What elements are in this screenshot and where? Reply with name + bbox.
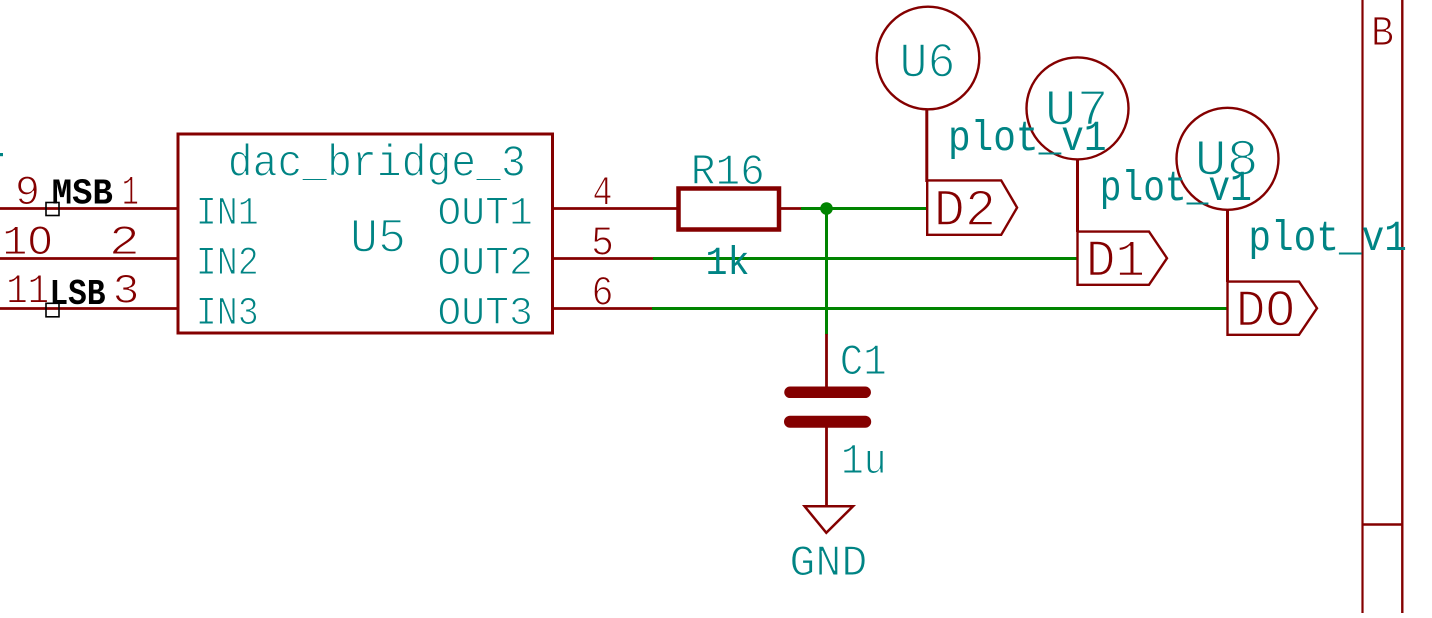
svg-text:U5: U5 <box>350 211 406 266</box>
probe U6 value plot_v1 <box>948 114 1107 163</box>
reference U8 <box>1195 133 1259 190</box>
pin number 10 (off-sheet device) <box>2 219 52 267</box>
unconnected-end square marker row1 <box>46 203 59 216</box>
svg-text:6: 6 <box>592 269 614 317</box>
svg-text:LSB: LSB <box>50 274 106 315</box>
svg-text:dac_bridge_3: dac_bridge_3 <box>228 139 526 189</box>
wire IN2 row <box>0 257 178 260</box>
sheet frame outer vertical line <box>1401 0 1403 613</box>
wire OUT1 to R16 <box>553 207 679 210</box>
wire IN3 row <box>0 307 178 310</box>
sheet frame row label B <box>1371 10 1394 58</box>
sheet frame inner vertical line <box>1361 0 1363 613</box>
svg-text:D1: D1 <box>1086 233 1146 292</box>
wire OUT2 stub <box>553 257 654 260</box>
wire green vertical junction to C1 <box>825 209 828 335</box>
value 1k <box>706 242 750 287</box>
svg-text:C1: C1 <box>840 339 887 388</box>
svg-text:IN1: IN1 <box>196 192 259 237</box>
svg-text:1O: 1O <box>2 219 52 267</box>
reference R16 <box>691 148 765 198</box>
svg-text:5: 5 <box>591 220 614 268</box>
probe U7 stem <box>1076 159 1079 232</box>
svg-text:MSB: MSB <box>52 174 113 215</box>
svg-text:1u: 1u <box>841 438 887 486</box>
pin number 1 of U5 <box>122 169 139 217</box>
svg-text:D2: D2 <box>934 182 997 241</box>
wire green R16 to junction and D2 <box>801 207 928 210</box>
probe U7 circle <box>1027 57 1129 159</box>
pin name OUT3 <box>437 292 533 337</box>
probe U7 value plot_v1 <box>1100 164 1252 213</box>
pin name OUT2 <box>437 242 533 287</box>
resistor R16 <box>679 189 780 230</box>
pin name IN1 <box>196 192 259 237</box>
hierarchical label D1 <box>1078 232 1168 292</box>
pin name IN2 <box>196 242 259 287</box>
value dac_bridge_3 <box>228 139 526 189</box>
svg-text:U6: U6 <box>900 36 956 92</box>
svg-text:R16: R16 <box>691 148 765 198</box>
hierarchical label D0 <box>1228 282 1318 342</box>
ground <box>805 506 853 533</box>
component U5 dac_bridge_3 body <box>178 134 553 333</box>
sheet frame row divider tick <box>1363 523 1403 525</box>
svg-text:11: 11 <box>6 268 49 316</box>
probe U8 circle <box>1177 108 1279 210</box>
svg-text:OUT3: OUT3 <box>437 292 533 337</box>
svg-text:3: 3 <box>113 268 140 316</box>
reference C1 <box>840 339 887 388</box>
svg-text:B: B <box>1371 10 1394 58</box>
probe U6 circle <box>877 7 980 110</box>
svg-text:2: 2 <box>109 219 140 267</box>
svg-text:GND: GND <box>789 540 867 589</box>
wire OUT3 stub <box>553 307 653 310</box>
reference U5 <box>350 211 406 266</box>
svg-text:plot_v1: plot_v1 <box>1100 164 1252 213</box>
label MSB <box>52 174 113 215</box>
pin name IN3 <box>196 292 259 337</box>
wire green OUT3 to D0 <box>652 307 1228 310</box>
probe U6 stem <box>925 109 928 182</box>
svg-text:plot_v1: plot_v1 <box>1248 214 1407 263</box>
reference U6 <box>900 36 956 92</box>
probe U8 stem <box>1226 209 1229 282</box>
svg-text:1k: 1k <box>706 242 750 287</box>
pin name OUT1 <box>437 192 533 237</box>
svg-text:OUT2: OUT2 <box>437 242 533 287</box>
pin number 3 of U5 <box>113 268 140 316</box>
probe U8 value plot_v1 <box>1248 214 1407 263</box>
hierarchical label D2 <box>927 180 1017 241</box>
svg-text:plot_v1: plot_v1 <box>948 114 1107 163</box>
clipped teal text fragment at left edge <box>0 153 3 156</box>
wire IN1 row <box>0 207 178 210</box>
svg-text:9: 9 <box>15 169 40 217</box>
pin number 6 of U5 <box>592 269 614 317</box>
wire green OUT2 to D1 <box>653 257 1078 260</box>
pin number 9 (off-sheet device) <box>15 169 40 217</box>
svg-text:1: 1 <box>122 169 139 217</box>
svg-text:IN2: IN2 <box>196 242 259 287</box>
label LSB <box>50 274 106 315</box>
wire R16 right stub <box>779 207 801 210</box>
capacitor C1 <box>790 334 865 506</box>
pin number 2 of U5 <box>109 219 140 267</box>
pin number 11 (off-sheet device) <box>6 268 49 316</box>
junction <box>820 202 833 215</box>
value 1u <box>841 438 887 486</box>
svg-text:4: 4 <box>593 170 613 218</box>
svg-text:DO: DO <box>1236 283 1296 342</box>
ground label GND <box>789 540 867 589</box>
svg-text:OUT1: OUT1 <box>437 192 533 237</box>
pin number 5 of U5 <box>591 220 614 268</box>
reference U7 <box>1045 83 1109 140</box>
svg-text:IN3: IN3 <box>196 292 259 337</box>
unconnected-end square marker row3 <box>46 303 59 317</box>
pin number 4 of U5 <box>593 170 613 218</box>
